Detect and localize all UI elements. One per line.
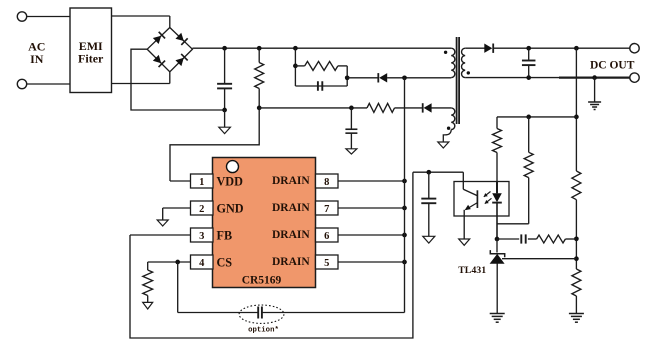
- svg-text:CS: CS: [217, 256, 233, 270]
- svg-text:GND: GND: [217, 202, 244, 216]
- svg-text:5: 5: [324, 258, 329, 269]
- svg-text:4: 4: [199, 258, 205, 269]
- svg-text:IN: IN: [30, 52, 44, 66]
- svg-text:DRAIN: DRAIN: [272, 256, 310, 268]
- svg-text:1: 1: [199, 177, 204, 188]
- svg-text:7: 7: [324, 204, 329, 215]
- svg-text:DC OUT: DC OUT: [590, 59, 635, 71]
- svg-text:3: 3: [199, 231, 204, 242]
- svg-text:DRAIN: DRAIN: [272, 229, 310, 241]
- svg-text:CR5169: CR5169: [242, 275, 282, 287]
- svg-text:6: 6: [324, 231, 329, 242]
- svg-text:VDD: VDD: [217, 175, 244, 189]
- svg-text:8: 8: [324, 177, 329, 188]
- svg-text:DRAIN: DRAIN: [272, 202, 310, 214]
- svg-text:DRAIN: DRAIN: [272, 175, 310, 187]
- svg-text:option*: option*: [248, 327, 279, 335]
- svg-text:2: 2: [199, 204, 204, 215]
- svg-text:FB: FB: [217, 229, 233, 243]
- svg-text:TL431: TL431: [458, 265, 486, 276]
- svg-text:Fiter: Fiter: [78, 52, 104, 66]
